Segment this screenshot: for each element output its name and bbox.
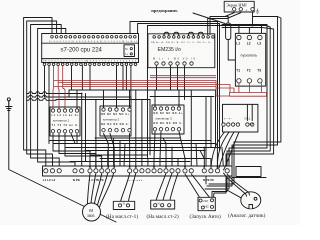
terminal circles bbox=[43, 8, 262, 210]
strip terminals N PE bbox=[73, 169, 84, 173]
wire starter drop L3 bbox=[261, 26, 263, 34]
svg-text:предохранит.: предохранит. bbox=[151, 8, 178, 13]
wire band horizontal 0 bbox=[49, 141, 211, 148]
svg-text:T1 T2 T3 вс A-: T1 T2 T3 вс A- bbox=[52, 124, 79, 127]
EM235 jumper arc 4 bbox=[198, 32, 203, 37]
strip terminals 1 2 3 PE PE bbox=[88, 169, 116, 173]
wire mid bus 1b bbox=[150, 96, 214, 98]
junction J4 bbox=[107, 143, 109, 145]
wire strip to motor extra b bbox=[100, 173, 114, 207]
junction J15 bbox=[95, 166, 97, 168]
connector box 2 (oil station 2) bbox=[151, 200, 175, 209]
wire bumpy run 3 bbox=[27, 99, 56, 101]
wire drop right band a bbox=[205, 97, 207, 185]
junction J14 bbox=[89, 166, 91, 168]
svg-text:NO NC NC NO A-: NO NC NC NO A- bbox=[154, 122, 183, 125]
terminal strip box bbox=[43, 166, 233, 176]
wire right loop 3 to switch NO bbox=[212, 26, 270, 199]
red bus 3 bbox=[63, 85, 230, 93]
wire CPU L1 to right bbox=[138, 24, 220, 151]
wire K2 bottom 2 bbox=[110, 134, 114, 170]
EM235 top terminals bbox=[153, 36, 214, 39]
red bus 2 bbox=[58, 82, 216, 84]
wire K2 bottom 3 bbox=[129, 134, 131, 170]
svg-text:N: N bbox=[158, 201, 160, 205]
svg-text:(Запуск Авто): (Запуск Авто) bbox=[190, 213, 222, 220]
red bus em235 a bbox=[150, 75, 216, 77]
wire CPU input drop D bbox=[125, 66, 127, 91]
K3 bottom terminals bbox=[153, 128, 180, 131]
magnetic starter box bbox=[235, 33, 265, 86]
wire band horizontal 7 bbox=[85, 150, 205, 152]
wire strip to motor 3 bbox=[95, 174, 102, 204]
wire to switch NC bbox=[191, 174, 210, 199]
wire strip to motor extra a bbox=[98, 173, 108, 205]
svg-text:контактор 1: контактор 1 bbox=[53, 119, 70, 123]
junction J12 bbox=[184, 158, 186, 160]
junction J2 bbox=[252, 25, 254, 27]
junction J16 bbox=[101, 166, 103, 168]
red drop T1 bbox=[238, 83, 240, 92]
switch NC terminals bbox=[201, 205, 213, 209]
wire K2 A+ up bbox=[129, 90, 131, 108]
wire band drop p bbox=[113, 138, 115, 166]
wire CPU N loop bbox=[38, 29, 75, 170]
wire band drop s bbox=[95, 100, 97, 167]
svg-text:N: N bbox=[123, 202, 125, 206]
svg-text:(На масл.ст-1): (На масл.ст-1) bbox=[106, 213, 138, 220]
junction J20 bbox=[135, 166, 137, 168]
wire K1 A+ up bbox=[76, 90, 78, 109]
wire left of K3 down 2 bbox=[149, 100, 151, 156]
wire starter drop L1 bbox=[238, 26, 240, 34]
wire band drop o bbox=[107, 151, 109, 167]
svg-text:N L1: N L1 bbox=[245, 117, 251, 121]
svg-text:L1 L2 L3 вс A+: L1 L2 L3 вс A+ bbox=[52, 114, 80, 117]
wire K1 A- down bbox=[76, 134, 78, 144]
wire K1 T3 to strip bbox=[65, 134, 102, 170]
junction J1 bbox=[238, 25, 240, 27]
wire strip drop i bbox=[210, 159, 212, 170]
svg-text:NO NC NC NO A-: NO NC NC NO A- bbox=[101, 123, 129, 126]
wire CPU input drop B bbox=[71, 66, 73, 91]
CPU DC sensor supply block bbox=[124, 45, 135, 57]
svg-text:EM235 i/o: EM235 i/o bbox=[158, 47, 181, 53]
K1 bottom terminals bbox=[51, 130, 78, 133]
red bus 4 bbox=[54, 86, 216, 88]
wire band horizontal 2 bbox=[65, 147, 220, 149]
svg-text:1 2 3 PE PE: 1 2 3 PE PE bbox=[89, 178, 104, 182]
switch NO terminals bbox=[199, 199, 213, 202]
junction J7 bbox=[190, 143, 192, 145]
connector box 1 (oil station 1) bbox=[113, 201, 134, 209]
wire strip drop g bbox=[190, 90, 192, 169]
wire ground bumpy run 1 bbox=[27, 92, 82, 169]
svg-text:1M 0.0 0.1 0.2 0.3 0.4 0.5 2M: 1M 0.0 0.1 0.2 0.3 0.4 0.5 2M 0.6 0.7 1.… bbox=[43, 61, 137, 63]
strip terminals F bbox=[183, 169, 194, 173]
motor M bbox=[83, 203, 101, 221]
s7-200 CPU 224 box bbox=[42, 34, 139, 63]
K2 top terminals bbox=[102, 108, 131, 111]
wire right loop 2 bbox=[205, 25, 267, 190]
junction J10 bbox=[203, 147, 205, 149]
contactor K2 box bbox=[100, 106, 131, 136]
junction J3 bbox=[89, 150, 91, 152]
wire fuse bottom bbox=[228, 40, 235, 61]
junction J8 bbox=[141, 147, 143, 149]
junction J19 bbox=[129, 166, 131, 168]
wire to sensor pin 1 bbox=[224, 173, 245, 193]
strip terminals L1 L2 L3 bbox=[44, 169, 62, 173]
wire EM235 drop 4 bbox=[184, 66, 186, 100]
wire K3 A+ up bbox=[178, 90, 180, 107]
wire strip drop h bbox=[203, 148, 205, 170]
wire EM235 drop 2 bbox=[170, 66, 172, 90]
svg-text:контактор 2: контактор 2 bbox=[103, 118, 120, 122]
wire CPU N to right bbox=[130, 22, 218, 148]
red starter T loop bbox=[230, 93, 267, 97]
red wire CPU out 2 bbox=[57, 66, 60, 110]
svg-text:1L 0.0 0.1 0.2 2L 0.3 0.4 0.5: 1L 0.0 0.1 0.2 2L 0.3 0.4 0.5 0.6 3L 0.7… bbox=[49, 41, 138, 43]
junction J21 bbox=[153, 166, 155, 168]
wire K3 coil up bbox=[154, 90, 156, 107]
svg-text:NO NC NC NO A+: NO NC NC NO A+ bbox=[154, 112, 184, 115]
EM235 box bbox=[148, 34, 215, 68]
svg-text:L1: L1 bbox=[236, 42, 240, 46]
CPU terminal strip separator top bbox=[42, 42, 139, 44]
contactor K1 box bbox=[50, 107, 80, 136]
strip terminals right bbox=[202, 169, 219, 173]
EM235 jumper arc 3 bbox=[189, 32, 194, 37]
wire starter feed bus A bbox=[148, 25, 267, 27]
wire EM235 drop 3 bbox=[177, 66, 179, 90]
svg-text:L+: L+ bbox=[125, 52, 128, 56]
wire band drop r bbox=[200, 151, 204, 159]
svg-text:контактор 3: контактор 3 bbox=[156, 117, 173, 121]
wire EM235 drop 1 bbox=[156, 66, 158, 90]
strip terminals + + + bbox=[152, 169, 180, 173]
wire strip drop e bbox=[171, 148, 173, 170]
wire CPU L3 loop bbox=[31, 25, 62, 170]
svg-text:М: М bbox=[89, 208, 93, 213]
wire CPU input drop F bbox=[89, 66, 91, 91]
K3 top terminals bbox=[153, 107, 180, 110]
svg-text:NO NC NC NO A+: NO NC NC NO A+ bbox=[101, 113, 130, 116]
wire to switch NO bbox=[185, 174, 201, 199]
svg-text:(Аналог. датчик): (Аналог. датчик) bbox=[228, 212, 266, 219]
ground electrode bbox=[6, 98, 12, 111]
analog sensor connector bbox=[241, 192, 261, 209]
wire starter feed bus B bbox=[222, 27, 262, 29]
BP AC terminals bbox=[246, 123, 254, 126]
wire K3 bottom 3 bbox=[179, 132, 185, 170]
CPU bottom terminals bbox=[43, 63, 137, 66]
HMI screen box bbox=[224, 1, 254, 12]
wire PE diagonal to motor bbox=[9, 101, 116, 222]
wire BP curve 3 bbox=[219, 132, 234, 168]
wire K2 coil up bbox=[103, 90, 105, 108]
fuse F1 bbox=[226, 23, 231, 40]
junction J9 bbox=[171, 147, 173, 149]
wire K1 T1 to strip bbox=[53, 134, 90, 170]
wire strip drop b bbox=[141, 100, 143, 170]
wire BP curve 2 bbox=[217, 132, 229, 168]
svg-text:+ - + -: + - + - bbox=[224, 117, 232, 121]
wire band horizontal 4 bbox=[100, 158, 210, 160]
wire CPU input drop A bbox=[44, 66, 46, 98]
junction J11 bbox=[159, 158, 161, 160]
wire band drop n bbox=[222, 148, 224, 170]
red drop T2 bbox=[248, 83, 250, 92]
svg-text:380В: 380В bbox=[87, 214, 94, 218]
junction J18 bbox=[113, 166, 115, 168]
wire band drop q bbox=[163, 138, 166, 144]
strip terminal PE end bbox=[225, 169, 229, 173]
box2 terminals bbox=[154, 204, 171, 207]
svg-text:(На масл.ст-2): (На масл.ст-2) bbox=[147, 213, 179, 220]
wire strip drop d bbox=[165, 144, 167, 170]
CPU top terminals bbox=[51, 36, 136, 39]
switch box (auto start) bbox=[198, 197, 215, 210]
svg-text:T1: T1 bbox=[236, 69, 240, 73]
wire bumpy run 2 bbox=[27, 90, 69, 97]
junction J6 bbox=[165, 143, 167, 145]
junction J24 bbox=[203, 166, 205, 168]
svg-text:БП: БП bbox=[250, 123, 255, 127]
red wire CPU out 3 bbox=[63, 66, 65, 110]
svg-text:L2: L2 bbox=[247, 42, 251, 46]
terminal strip blank extension bbox=[236, 167, 261, 177]
junction J25 bbox=[217, 166, 219, 168]
wire strip drop c bbox=[147, 159, 149, 170]
wire CPU L2 loop bbox=[27, 21, 57, 169]
contactor K3 box bbox=[152, 105, 184, 134]
leader line fuse label bbox=[193, 13, 225, 24]
red T row to left bbox=[216, 88, 234, 93]
svg-text:+ - + - + + +: + - + - + + + bbox=[128, 179, 143, 182]
starter top terminals bbox=[237, 35, 262, 39]
wire band horizontal 6 bbox=[95, 137, 180, 139]
wire strip to box2 a bbox=[155, 173, 166, 204]
junction J13 bbox=[81, 93, 83, 95]
wire right loop 4 to switch NC bbox=[213, 28, 274, 206]
CPU DC block terminals bbox=[130, 48, 132, 56]
HMI terminals bbox=[233, 8, 243, 11]
svg-text:L1 L2 L3: L1 L2 L3 bbox=[43, 178, 56, 182]
red wires group bbox=[53, 66, 267, 110]
wire strip to box1 a bbox=[120, 173, 130, 204]
junction J22 bbox=[165, 166, 167, 168]
wire K2 bottom 1 bbox=[104, 134, 109, 170]
K2 bottom terminals bbox=[102, 129, 131, 132]
wire mid bus 1 bbox=[69, 90, 216, 147]
wire band horizontal 1 bbox=[53, 143, 215, 145]
wire strip to motor 1 bbox=[88, 174, 91, 205]
wire band drop l bbox=[124, 144, 125, 167]
svg-text:RA A+ A- RB B+ B- RC C+ C- RD: RA A+ A- RB B+ B- RC C+ C- RD D+ D- bbox=[151, 41, 211, 44]
EM235 jumper arc 2 bbox=[174, 32, 179, 37]
box1 terminals bbox=[118, 204, 129, 207]
wire left of K3 down 1 bbox=[147, 26, 149, 159]
svg-text:М PE PE: М PE PE bbox=[203, 178, 214, 182]
junction J17 bbox=[107, 166, 109, 168]
wire CPU input drop A2 bbox=[48, 66, 50, 144]
wire K3 bottom 1 bbox=[154, 132, 155, 170]
wire K1 terminal4 down bbox=[71, 134, 75, 144]
wire right loop 1 bbox=[207, 17, 278, 187]
wire K3 bottom 2 bbox=[160, 132, 161, 170]
wire HMI ground bbox=[252, 13, 254, 26]
wire BP L1 drop bbox=[251, 104, 253, 120]
wire strip to box2 b bbox=[162, 173, 172, 204]
wire sensor shield diagonal bbox=[226, 190, 241, 198]
label HMI earth bbox=[256, 9, 259, 14]
wire strip to motor 2 bbox=[91, 174, 96, 204]
wire right loop 5 bbox=[209, 17, 281, 185]
starter bottom terminals bbox=[237, 79, 262, 83]
wire strip to box2 c bbox=[169, 173, 178, 204]
red bus em235 b bbox=[150, 77, 216, 79]
wire sensor top horizontal bbox=[232, 177, 266, 179]
EM235 bottom terminals bbox=[155, 62, 193, 65]
wire BP curve 1 bbox=[211, 132, 225, 168]
wire mid bus 3 bbox=[45, 97, 132, 106]
wire drop right band b bbox=[210, 97, 212, 141]
junction J23 bbox=[184, 166, 186, 168]
wire strip to box1 b bbox=[128, 173, 136, 204]
HMI earth terminal bbox=[251, 8, 254, 11]
wire between K1 K2 bbox=[85, 94, 87, 162]
wire band horizontal 3 bbox=[90, 154, 148, 156]
svg-text:пускатель: пускатель bbox=[241, 54, 258, 58]
wire band drop m bbox=[196, 144, 197, 167]
svg-text:Экран HMI: Экран HMI bbox=[226, 2, 247, 7]
wire CPU input drop C bbox=[81, 66, 83, 91]
svg-text:L3: L3 bbox=[257, 42, 261, 46]
wire K1 T2 to strip bbox=[59, 134, 96, 170]
wire HMI minus bbox=[210, 13, 234, 35]
red wire CPU out 1 bbox=[52, 66, 55, 110]
wire band horizontal 5 bbox=[70, 161, 190, 163]
svg-text:M: M bbox=[125, 47, 127, 51]
wire fuse top bbox=[213, 17, 228, 24]
wire band drop k bbox=[119, 141, 121, 167]
red bus 1 bbox=[54, 81, 230, 97]
svg-text:+: + bbox=[245, 8, 247, 12]
wire CPU L1 loop bbox=[24, 18, 52, 170]
svg-text:M L+ ⏚ M0 V0 I0: M L+ ⏚ M0 V0 I0 bbox=[153, 57, 196, 61]
wire BP N drop bbox=[246, 104, 248, 120]
wire HMI plus bbox=[208, 13, 241, 35]
red drop T3 bbox=[261, 83, 263, 92]
svg-text:s7-200 cpu 224: s7-200 cpu 224 bbox=[61, 48, 103, 54]
wire CPU input drop H bbox=[122, 66, 124, 91]
junction J5 bbox=[135, 143, 137, 145]
BP output terminals bbox=[222, 123, 240, 126]
strip terminals + - + - bbox=[128, 169, 150, 173]
CPU terminal strip separator bottom bbox=[42, 58, 139, 60]
K1 top terminals bbox=[51, 109, 78, 112]
power supply BP box bbox=[223, 104, 258, 132]
wire strip drop f bbox=[177, 159, 179, 170]
wire strip drop j bbox=[216, 148, 218, 170]
wire CPU input drop E bbox=[130, 66, 132, 100]
wire CPU input drop G bbox=[116, 66, 118, 108]
wire strip drop a bbox=[135, 90, 137, 169]
wire to sensor pin 2 bbox=[227, 174, 248, 192]
EM235 jumper arc 1 bbox=[164, 32, 169, 37]
svg-text:N PE: N PE bbox=[73, 178, 80, 182]
wire mid bus 2 bbox=[56, 99, 150, 101]
svg-text:NO: NO bbox=[204, 199, 209, 203]
svg-text:T3: T3 bbox=[257, 69, 261, 73]
wire BP curve 4 bbox=[224, 132, 240, 170]
wire starter drop L2 bbox=[248, 28, 250, 34]
svg-text:T2: T2 bbox=[247, 69, 251, 73]
